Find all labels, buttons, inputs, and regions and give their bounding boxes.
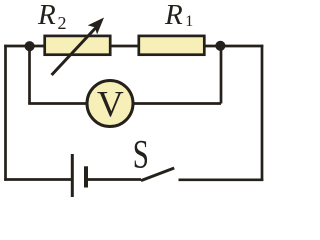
rheostat R2 arrow bbox=[52, 18, 104, 76]
wire right edge bbox=[261, 45, 264, 181]
battery long plate bbox=[71, 154, 74, 197]
switch S blade bbox=[141, 168, 174, 181]
resistor R2 (rheostat) body bbox=[45, 36, 111, 55]
node right junction dot bbox=[215, 41, 225, 51]
battery short plate bbox=[84, 166, 88, 187]
svg-text:V: V bbox=[97, 85, 124, 126]
wire voltmeter branch right horizontal bbox=[132, 102, 221, 105]
voltmeter V body bbox=[87, 81, 133, 127]
resistor R1 body bbox=[139, 36, 205, 55]
node left junction dot bbox=[25, 41, 35, 51]
wire voltmeter branch left horizontal bbox=[28, 102, 88, 105]
wire voltmeter branch left vertical bbox=[28, 46, 31, 104]
wire battery to switch bbox=[87, 178, 141, 181]
svg-text:R: R bbox=[37, 0, 56, 31]
wire voltmeter branch right vertical bbox=[220, 46, 223, 104]
wire switch to bottom-right bbox=[179, 178, 264, 181]
svg-text:2: 2 bbox=[58, 13, 67, 33]
wire bottom-left to battery bbox=[4, 178, 72, 181]
wire top-left segment bbox=[4, 45, 45, 48]
wire left edge bbox=[4, 45, 7, 181]
svg-text:S: S bbox=[133, 132, 149, 177]
svg-text:R: R bbox=[164, 0, 183, 31]
svg-text:1: 1 bbox=[185, 13, 193, 30]
wire between R2 and R1 bbox=[110, 45, 140, 48]
wire top-right segment bbox=[204, 45, 263, 48]
